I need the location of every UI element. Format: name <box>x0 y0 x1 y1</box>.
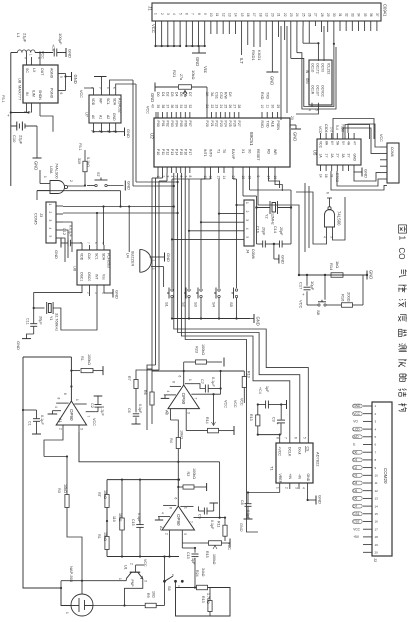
svg-text:10μF: 10μF <box>310 281 315 291</box>
svg-text:CO: CO <box>397 248 406 260</box>
svg-text:+CV: +CV <box>51 44 55 52</box>
svg-text:P11: P11 <box>161 149 165 155</box>
svg-text:20: 20 <box>290 116 294 120</box>
svg-text:RXD1: RXD1 <box>251 50 256 61</box>
svg-text:R7: R7 <box>127 376 131 381</box>
svg-text:L1: L1 <box>16 33 21 38</box>
svg-text:11: 11 <box>215 13 219 17</box>
svg-text:ILT: ILT <box>239 58 244 64</box>
svg-text:1: 1 <box>151 268 155 270</box>
svg-text:DCLK: DCLK <box>287 447 291 457</box>
svg-text:C11: C11 <box>26 318 30 325</box>
svg-text:U5: U5 <box>313 150 318 156</box>
svg-text:SIN: SIN <box>305 78 309 84</box>
svg-text:MAX777: MAX777 <box>18 85 23 101</box>
svg-text:X1: X1 <box>241 149 245 153</box>
svg-text:PGND: PGND <box>50 88 54 99</box>
svg-text:D7: D7 <box>188 92 192 97</box>
svg-text:C16: C16 <box>256 226 260 233</box>
svg-text:R13: R13 <box>247 371 251 378</box>
svg-text:OSC0: OSC0 <box>87 272 91 281</box>
svg-text:4: 4 <box>54 406 58 408</box>
svg-text:P05: P05 <box>179 121 183 127</box>
svg-text:D0: D0 <box>156 92 160 97</box>
svg-text:P04: P04 <box>174 121 178 127</box>
svg-text:34: 34 <box>357 13 361 17</box>
svg-text:P06: P06 <box>184 121 188 127</box>
svg-text:C8: C8 <box>240 500 244 505</box>
svg-text:6: 6 <box>294 437 298 439</box>
svg-text:6: 6 <box>326 192 330 194</box>
svg-text:VDD: VDD <box>91 98 95 106</box>
svg-text:3: 3 <box>80 428 84 430</box>
svg-text:R14: R14 <box>205 417 209 424</box>
svg-text:VCC: VCC <box>146 106 150 114</box>
svg-text:INT1: INT1 <box>203 149 207 157</box>
svg-text:16kΩ: 16kΩ <box>118 513 122 522</box>
svg-text:C2: C2 <box>90 403 94 408</box>
svg-text:1μF: 1μF <box>191 558 195 565</box>
svg-text:GND: GND <box>68 49 73 58</box>
svg-text:C17: C17 <box>299 282 304 290</box>
svg-text:38: 38 <box>161 105 165 109</box>
svg-text:F5.1: F5.1 <box>78 143 82 151</box>
svg-text:5: 5 <box>245 236 249 238</box>
svg-text:GND: GND <box>195 57 200 66</box>
svg-text:40: 40 <box>151 104 155 108</box>
svg-text:1: 1 <box>184 507 188 509</box>
svg-text:X0: X0 <box>248 149 252 153</box>
svg-text:17: 17 <box>375 527 379 531</box>
svg-text:5: 5 <box>48 236 52 238</box>
svg-text:CS2: CS2 <box>353 520 359 524</box>
svg-text:P13: P13 <box>170 149 174 155</box>
svg-text:AD7822: AD7822 <box>316 452 321 467</box>
svg-text:U2: U2 <box>150 133 155 139</box>
svg-text:A: A <box>24 57 28 59</box>
svg-text:GND: GND <box>293 132 298 141</box>
svg-text:VCC: VCC <box>318 126 322 134</box>
svg-text:S1: S1 <box>165 302 170 308</box>
svg-text:11: 11 <box>375 481 378 485</box>
svg-text:2: 2 <box>245 211 249 213</box>
svg-text:R23: R23 <box>195 346 199 353</box>
svg-text:R15: R15 <box>205 551 209 558</box>
svg-text:4: 4 <box>48 228 52 230</box>
svg-text:2: 2 <box>160 13 164 15</box>
svg-text:C6: C6 <box>127 408 131 413</box>
svg-text:2: 2 <box>165 533 169 535</box>
svg-text:25: 25 <box>301 13 305 17</box>
svg-text:S8: S8 <box>316 310 321 316</box>
svg-text:VCC: VCC <box>79 90 83 98</box>
svg-text:7: 7 <box>191 13 195 15</box>
svg-text:S7: S7 <box>96 172 100 177</box>
svg-text:1-3: 1-3 <box>330 127 334 132</box>
svg-text:F5.1: F5.1 <box>1 95 5 103</box>
svg-text:GND: GND <box>281 255 286 264</box>
svg-text:INT: INT <box>95 274 99 279</box>
svg-text:Y1: Y1 <box>49 316 53 320</box>
svg-text:GND: GND <box>256 317 261 326</box>
svg-text:Dout: Dout <box>297 447 301 454</box>
svg-text:20: 20 <box>375 551 379 555</box>
svg-text:R4: R4 <box>169 438 173 443</box>
svg-text:CS: CS <box>305 447 309 453</box>
svg-text:7: 7 <box>284 437 288 439</box>
svg-text:VCC: VCC <box>353 412 360 416</box>
svg-text:31: 31 <box>338 13 342 17</box>
svg-text:36: 36 <box>170 105 174 109</box>
svg-text:+IN: +IN <box>288 474 292 480</box>
svg-text:1: 1 <box>245 202 249 204</box>
svg-text:23: 23 <box>289 13 293 17</box>
svg-text:CS2: CS2 <box>219 92 223 99</box>
svg-text:GND: GND <box>54 250 59 259</box>
svg-text:3: 3 <box>48 220 52 222</box>
svg-text:2: 2 <box>166 412 170 414</box>
svg-text:0.1μF: 0.1μF <box>210 520 214 530</box>
svg-text:VCC: VCC <box>224 400 228 408</box>
svg-text:SHDN: SHDN <box>38 90 42 100</box>
svg-text:10: 10 <box>209 13 213 17</box>
svg-text:COM6: COM6 <box>251 249 255 259</box>
svg-text:5: 5 <box>315 109 319 111</box>
svg-text:P20: P20 <box>205 121 209 127</box>
svg-text:U8: U8 <box>18 78 23 84</box>
svg-text:7: 7 <box>194 398 198 400</box>
svg-text:15: 15 <box>217 176 221 180</box>
svg-text:15: 15 <box>375 512 379 516</box>
svg-text:RESET: RESET <box>256 149 260 162</box>
svg-text:6: 6 <box>178 376 182 378</box>
svg-text:R21: R21 <box>172 70 177 78</box>
svg-text:OC1R: OC1R <box>311 85 315 95</box>
svg-text:RXD: RXD <box>260 121 264 129</box>
svg-text:8: 8 <box>57 398 61 400</box>
svg-text:5: 5 <box>302 437 306 439</box>
svg-text:GND: GND <box>166 253 171 262</box>
svg-text:2: 2 <box>285 487 289 489</box>
svg-text:+: + <box>7 113 10 118</box>
svg-text:4: 4 <box>323 236 327 238</box>
svg-text:10kΩ: 10kΩ <box>103 490 107 499</box>
svg-text:CS1: CS1 <box>353 512 359 516</box>
svg-text:14: 14 <box>375 504 379 508</box>
svg-text:GND: GND <box>126 129 131 138</box>
svg-text:R9: R9 <box>146 593 150 598</box>
svg-text:P00: P00 <box>156 121 160 127</box>
svg-text:11: 11 <box>265 105 269 109</box>
svg-text:VCC: VCC <box>319 141 323 149</box>
svg-text:C1: C1 <box>28 421 32 426</box>
svg-text:KXD1: KXD1 <box>257 50 262 61</box>
svg-text:2: 2 <box>130 563 134 565</box>
svg-text:4: 4 <box>161 512 165 514</box>
svg-text:GND: GND <box>239 523 243 532</box>
svg-text:R/W: R/W <box>223 92 227 100</box>
svg-text:20pF: 20pF <box>262 227 266 236</box>
svg-text:3A: 3A <box>210 92 214 97</box>
svg-text:ALE: ALE <box>271 121 275 128</box>
svg-text:15kΩ: 15kΩ <box>103 532 107 541</box>
svg-text:IN: IN <box>25 92 29 96</box>
svg-text:S3: S3 <box>194 302 199 308</box>
svg-text:22μF: 22μF <box>19 135 24 145</box>
svg-text:3: 3 <box>187 412 191 414</box>
svg-text:Vcc: Vcc <box>203 66 208 73</box>
svg-text:C14: C14 <box>273 226 277 233</box>
svg-text:1: 1 <box>275 487 279 489</box>
svg-text:19: 19 <box>264 13 268 17</box>
svg-text:C0941: C0941 <box>383 4 388 17</box>
svg-text:INT0: INT0 <box>209 149 213 157</box>
svg-text:P21: P21 <box>210 121 214 127</box>
svg-text:P16: P16 <box>184 149 188 155</box>
svg-text:GND: GND <box>112 113 116 121</box>
svg-text:28: 28 <box>237 105 241 109</box>
svg-text:25: 25 <box>223 105 227 109</box>
svg-text:GND: GND <box>318 495 323 504</box>
svg-text:A1: A1 <box>99 115 103 119</box>
svg-text:+VCC: +VCC <box>277 447 281 457</box>
svg-text:8: 8 <box>197 13 201 15</box>
svg-text:R16: R16 <box>341 294 346 302</box>
svg-text:SCL: SCL <box>106 98 110 105</box>
svg-text:8: 8 <box>169 507 173 509</box>
svg-text:200Ω: 200Ω <box>347 292 352 302</box>
svg-text:VCC: VCC <box>379 134 383 142</box>
svg-text:1: 1 <box>43 176 47 178</box>
svg-text:J1: J1 <box>148 6 153 11</box>
svg-text:GND: GND <box>306 474 310 482</box>
svg-text:GND: GND <box>16 341 21 350</box>
svg-text:RXD: RXD <box>260 92 264 100</box>
svg-text:D4: D4 <box>174 92 178 97</box>
svg-text:SDA: SDA <box>102 253 106 261</box>
svg-text:AGND: AGND <box>50 68 54 79</box>
svg-text:CS1: CS1 <box>214 92 218 99</box>
svg-text:8: 8 <box>172 381 176 383</box>
svg-text:19: 19 <box>375 543 379 547</box>
svg-text:VCC: VCC <box>353 527 360 531</box>
svg-text:16: 16 <box>375 520 379 524</box>
svg-text:10: 10 <box>260 105 264 109</box>
svg-text:OSC1: OSC1 <box>80 272 84 281</box>
svg-text:21μF: 21μF <box>23 33 28 43</box>
svg-text:37: 37 <box>165 105 169 109</box>
svg-text:R2: R2 <box>186 472 190 477</box>
svg-text:0.1μF: 0.1μF <box>40 415 44 425</box>
svg-text:1: 1 <box>75 399 79 401</box>
svg-text:S5: S5 <box>229 302 234 308</box>
svg-text:32.768kHz: 32.768kHz <box>55 313 59 331</box>
svg-text:2: 2 <box>151 260 155 262</box>
svg-text:R24: R24 <box>195 570 199 577</box>
svg-text:10kΩ: 10kΩ <box>191 70 196 79</box>
svg-text:LCD: LCD <box>353 427 360 431</box>
svg-text:P23: P23 <box>219 121 223 127</box>
svg-text:A1: A1 <box>58 418 63 424</box>
svg-text:3: 3 <box>143 580 147 582</box>
svg-text:C10: C10 <box>12 135 17 143</box>
svg-text:P26: P26 <box>233 121 237 127</box>
svg-text:A2: A2 <box>106 115 110 119</box>
svg-text:R11: R11 <box>217 521 221 527</box>
svg-text:12: 12 <box>221 13 225 17</box>
svg-text:100kΩ: 100kΩ <box>192 468 196 479</box>
svg-text:16: 16 <box>246 13 250 17</box>
svg-text:C5: C5 <box>198 514 202 519</box>
svg-text:C7: C7 <box>200 379 204 384</box>
svg-text:COM6: COM6 <box>390 147 394 157</box>
svg-text:1: 1 <box>397 236 407 241</box>
svg-text:P15: P15 <box>179 149 183 155</box>
svg-text:VO: VO <box>353 420 358 424</box>
svg-text:ILIM: ILIM <box>32 90 36 97</box>
svg-text:P25: P25 <box>228 121 232 127</box>
svg-text:U3A: U3A <box>49 166 53 174</box>
svg-text:2: 2 <box>48 212 52 214</box>
svg-text:R14: R14 <box>329 263 334 271</box>
svg-text:100kΩ: 100kΩ <box>87 354 91 365</box>
svg-text:21: 21 <box>205 105 209 109</box>
svg-text:Vss: Vss <box>102 274 106 280</box>
svg-text:VDD: VDD <box>80 253 84 261</box>
svg-text:16: 16 <box>324 174 328 178</box>
svg-text:3: 3 <box>295 487 299 489</box>
svg-text:2L: 2L <box>330 174 334 178</box>
svg-text:12MHz: 12MHz <box>271 213 275 225</box>
svg-text:BUZZER: BUZZER <box>131 251 135 266</box>
svg-text:GND: GND <box>352 154 356 162</box>
svg-text:10: 10 <box>375 474 379 478</box>
svg-text:VCC: VCC <box>240 398 244 406</box>
svg-text:U1: U1 <box>124 565 128 570</box>
svg-text:4: 4 <box>308 109 312 111</box>
svg-text:34: 34 <box>179 105 183 109</box>
svg-text:15: 15 <box>240 13 244 17</box>
svg-text:29: 29 <box>276 105 280 109</box>
svg-text:10Ω: 10Ω <box>152 591 156 598</box>
svg-text:OCX0: OCX0 <box>321 63 325 72</box>
svg-text:+5V: +5V <box>353 535 360 539</box>
svg-text:20: 20 <box>271 13 275 17</box>
svg-text:74ALS00: 74ALS00 <box>55 163 59 179</box>
svg-text:GND: GND <box>34 161 39 170</box>
svg-text:OP90: OP90 <box>69 409 74 421</box>
svg-text:S6: S6 <box>167 586 171 591</box>
svg-text:+: + <box>302 292 305 297</box>
svg-text:OP90: OP90 <box>176 514 181 526</box>
svg-text:6: 6 <box>59 93 63 95</box>
svg-text:T1: T1 <box>270 466 275 471</box>
svg-text:C3D6: C3D6 <box>324 124 328 133</box>
svg-text:3: 3 <box>183 533 187 535</box>
svg-text:9: 9 <box>203 13 207 15</box>
svg-text:37: 37 <box>375 13 379 17</box>
svg-text:74LS00: 74LS00 <box>337 211 342 226</box>
svg-text:0.1μF: 0.1μF <box>101 406 105 416</box>
svg-text:A/D: A/D <box>353 435 359 439</box>
svg-text:18: 18 <box>375 535 379 539</box>
svg-text:P14: P14 <box>174 149 178 155</box>
svg-text:110: 110 <box>112 516 116 522</box>
svg-text:R13: R13 <box>201 596 205 603</box>
svg-text:P10: P10 <box>156 149 160 155</box>
svg-text:PCF8563: PCF8563 <box>107 253 111 268</box>
svg-text:0.1μF: 0.1μF <box>137 513 141 523</box>
svg-text:14: 14 <box>222 176 226 180</box>
svg-text:GND: GND <box>353 404 361 408</box>
svg-text:COM20: COM20 <box>383 468 388 484</box>
svg-text:D2: D2 <box>165 92 169 97</box>
svg-text:E: E <box>353 443 355 447</box>
svg-text:A0: A0 <box>91 115 95 119</box>
svg-text:1: 1 <box>154 13 158 15</box>
svg-text:33: 33 <box>184 105 188 109</box>
svg-text:18: 18 <box>258 13 262 17</box>
svg-text:R3: R3 <box>57 488 61 493</box>
svg-text:GND: GND <box>369 270 374 279</box>
svg-text:100kΩ: 100kΩ <box>201 344 205 355</box>
svg-text:WP: WP <box>99 98 103 104</box>
svg-text:SDA: SDA <box>113 98 117 106</box>
svg-text:VCC: VCC <box>143 559 147 567</box>
svg-text:SC1: SC1 <box>95 253 99 260</box>
svg-text:S2: S2 <box>182 302 187 308</box>
svg-text:PSEN: PSEN <box>276 121 280 131</box>
svg-text:1kΩ: 1kΩ <box>335 261 340 268</box>
svg-text:1.7MΩ: 1.7MΩ <box>206 593 210 604</box>
svg-text:22: 22 <box>283 13 287 17</box>
svg-text:0.1μF: 0.1μF <box>138 404 142 414</box>
svg-text:RD: RD <box>267 149 271 155</box>
svg-text:AT24C02: AT24C02 <box>118 98 122 113</box>
svg-text:EA/VP: EA/VP <box>231 149 235 160</box>
svg-text:1: 1 <box>48 204 52 206</box>
svg-text:U6: U6 <box>73 266 78 272</box>
svg-text:14: 14 <box>319 174 323 178</box>
svg-text:GND: GND <box>364 169 369 178</box>
svg-text:319: 319 <box>77 158 81 164</box>
svg-text:30: 30 <box>271 105 275 109</box>
svg-text:1: 1 <box>65 612 69 614</box>
svg-text:GND: GND <box>115 290 120 299</box>
svg-text:89C51: 89C51 <box>249 132 254 146</box>
svg-text:LX: LX <box>32 68 36 73</box>
svg-text:5: 5 <box>178 13 182 15</box>
svg-text:TXD: TXD <box>265 121 269 128</box>
svg-text:C15: C15 <box>131 519 135 526</box>
svg-text:35: 35 <box>174 105 178 109</box>
svg-text:+C4: +C4 <box>258 387 262 394</box>
svg-text:6: 6 <box>184 13 188 15</box>
svg-text:7: 7 <box>86 416 90 418</box>
svg-text:17: 17 <box>252 13 256 17</box>
svg-text:4: 4 <box>170 176 174 178</box>
svg-text:27: 27 <box>233 105 237 109</box>
svg-text:13: 13 <box>228 13 232 17</box>
svg-text:TXD: TXD <box>265 92 269 99</box>
svg-text:1A: 1A <box>205 92 209 97</box>
svg-text:24: 24 <box>219 105 223 109</box>
svg-text:P17: P17 <box>188 149 192 155</box>
svg-text:8: 8 <box>275 437 279 439</box>
svg-text:10kΩ: 10kΩ <box>63 484 67 493</box>
svg-text:OP90: OP90 <box>181 393 186 405</box>
svg-text:OCVCC: OCVCC <box>321 85 325 98</box>
